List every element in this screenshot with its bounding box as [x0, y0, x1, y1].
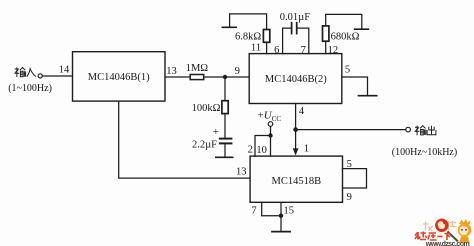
svg-text:13: 13 — [166, 66, 177, 77]
svg-text:14: 14 — [59, 65, 70, 76]
wire node A down to resistor R2 — [224, 77, 226, 101]
ground upper-left — [222, 26, 236, 28]
svg-text:10: 10 — [256, 145, 267, 156]
wire U2 pin 11 up to resistor R3 — [266, 42, 268, 53]
wire U2 pin 5 to ground — [342, 77, 368, 96]
svg-text:13: 13 — [236, 167, 247, 178]
svg-text:15: 15 — [284, 206, 295, 217]
svg-text:MC14046B(2): MC14046B(2) — [265, 74, 327, 85]
watermark: mascot — [448, 219, 472, 243]
+Ucc terminal circle — [268, 122, 273, 127]
ground upper-right — [355, 28, 369, 30]
svg-text:1: 1 — [304, 143, 309, 154]
watermark: red circle logo — [435, 219, 448, 232]
watermark: faded text 找图片 — [423, 221, 457, 231]
wire U3 pin 15 down to ground — [280, 202, 282, 231]
svg-text:7: 7 — [301, 45, 306, 56]
svg-text:5: 5 — [345, 64, 350, 75]
svg-text:1MΩ: 1MΩ — [186, 63, 209, 74]
junction node C dot — [268, 133, 272, 137]
svg-text:9: 9 — [347, 192, 352, 203]
output terminal circle — [406, 127, 411, 132]
wire U1 bottom pin down and right to U3 pin 13 — [119, 101, 250, 178]
svg-text:5: 5 — [347, 159, 352, 170]
svg-text:4: 4 — [299, 106, 305, 117]
svg-text:6.8kΩ: 6.8kΩ — [235, 32, 261, 43]
resistor R3 6.8k ohm body — [263, 30, 269, 43]
svg-text:MC14518B: MC14518B — [272, 176, 322, 187]
junction node B dot — [293, 127, 298, 132]
svg-text:(100Hz~10kHz): (100Hz~10kHz) — [392, 147, 457, 158]
label: 输入 (input) drawn as strokes — [14, 67, 36, 77]
wire U2 pin 6 up to capacitor C2 — [283, 28, 291, 53]
wire +Ucc terminal down to node C — [270, 127, 272, 136]
wire U3 pin 5 loop to pin 9 — [343, 169, 367, 188]
wire R1 to U2 pin 9 through node A — [204, 76, 250, 78]
capacitor C2 0.01uF plates — [291, 23, 293, 34]
svg-text:11: 11 — [251, 43, 261, 54]
wire node B to output terminal — [296, 129, 406, 131]
IC U1 MC14046B(1) box — [73, 52, 166, 101]
input terminal circle — [38, 74, 42, 78]
watermark: red text 维库一下 — [415, 232, 451, 241]
svg-text:+: + — [213, 126, 219, 138]
wire U3 pin 7 down — [262, 202, 281, 215]
svg-text:MC14046B(1): MC14046B(1) — [88, 72, 150, 83]
IC U3 MC14518B box — [250, 156, 342, 202]
junction dot at U3 pins 7/15 — [279, 214, 283, 218]
svg-text:100kΩ: 100kΩ — [192, 103, 221, 114]
svg-text:680kΩ: 680kΩ — [331, 32, 360, 43]
IC U2 MC14046B(2) box — [249, 54, 342, 104]
wire node C to U3 pin 2 — [255, 136, 271, 157]
wire node C to U3 pin 10 — [270, 136, 272, 157]
svg-text:9: 9 — [235, 66, 240, 77]
svg-text:(1~100Hz): (1~100Hz) — [8, 83, 52, 94]
wire C1 to ground — [224, 143, 226, 157]
label: 输出 (output) drawn as strokes — [415, 126, 436, 136]
resistor R2 100k ohm body — [222, 101, 228, 114]
wire input terminal to U1 pin 14 — [43, 75, 73, 77]
svg-text:2.2µF: 2.2µF — [192, 140, 217, 151]
resistor R1 1M ohm body — [190, 75, 204, 80]
junction node A dot — [223, 75, 227, 79]
wire capacitor C2 to U2 pin 7 — [298, 28, 309, 53]
svg-text:www.dzsc.com: www.dzsc.com — [425, 241, 470, 246]
capacitor C1 2.2uF plates — [220, 138, 232, 140]
ground at U2 pin 5 — [359, 95, 377, 97]
wire R3 top to upper-left ground — [230, 14, 267, 30]
wire R4 top to upper-right ground — [326, 14, 362, 29]
svg-text:2: 2 — [248, 144, 253, 155]
svg-text:0.01µF: 0.01µF — [280, 12, 310, 23]
wire U2 pin 4 down to U3 pin 1 with arrow — [295, 104, 297, 150]
resistor R4 680k ohm body — [323, 26, 329, 41]
svg-text:6: 6 — [274, 45, 279, 56]
wire U2 pin 12 up to resistor R4 — [325, 41, 327, 53]
ground below C1 — [216, 156, 233, 158]
arrowhead into U3 pin 1 — [293, 148, 299, 155]
ground below U3 — [272, 231, 290, 233]
svg-text:7: 7 — [251, 206, 256, 217]
wire U1 pin 13 to resistor R1 — [165, 76, 190, 78]
wire R2 to capacitor C1 — [224, 114, 226, 138]
svg-text:12: 12 — [328, 45, 339, 56]
